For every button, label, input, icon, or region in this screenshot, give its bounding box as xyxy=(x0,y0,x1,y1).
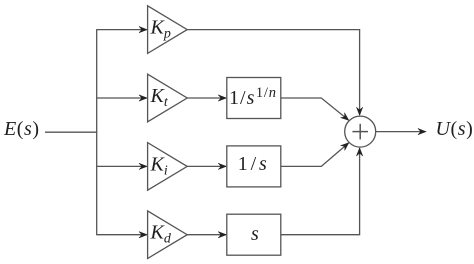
wire Kp output to summing junction xyxy=(187,30,359,115)
block 1/s xyxy=(227,146,281,187)
wire branch to Kd xyxy=(96,234,146,236)
amplifier Kp triangle xyxy=(148,6,188,54)
wire branch to Kt xyxy=(96,97,146,99)
svg-text:1/s1/n: 1/s1/n xyxy=(229,85,276,109)
wire block 1/s^(1/n) to summing junction xyxy=(281,98,349,120)
svg-text:Kd: Kd xyxy=(150,222,172,247)
block s xyxy=(227,214,281,255)
wire block s to summing junction xyxy=(281,148,360,234)
svg-text:s: s xyxy=(251,223,259,245)
wire block 1/s to summing junction xyxy=(281,143,349,166)
svg-text:1/s: 1/s xyxy=(238,153,267,175)
block 1/s^(1/n) xyxy=(227,78,281,119)
wire output U(s) xyxy=(376,131,426,133)
wire Kt to block xyxy=(187,97,226,99)
svg-text:Ki: Ki xyxy=(150,153,168,178)
summing junction plus sign xyxy=(352,131,368,133)
svg-text:E(s): E(s) xyxy=(3,118,40,140)
amplifier Kt triangle xyxy=(148,74,188,122)
svg-text:Kt: Kt xyxy=(150,85,169,110)
svg-text:U(s): U(s) xyxy=(436,118,474,140)
wire Ki to block xyxy=(187,165,226,167)
wire Kd to block xyxy=(187,234,226,236)
wire branch to Kp xyxy=(96,29,146,31)
wire branch to Ki xyxy=(96,165,146,167)
amplifier Ki triangle xyxy=(148,143,188,191)
svg-text:Kp: Kp xyxy=(150,17,171,42)
summing junction circle xyxy=(345,116,376,147)
wire vertical bus xyxy=(96,30,98,235)
amplifier Kd triangle xyxy=(148,211,188,259)
wire E(s) input xyxy=(45,131,97,133)
